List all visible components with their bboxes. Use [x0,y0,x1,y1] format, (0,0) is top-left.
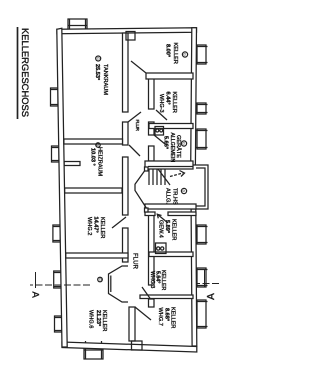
svg-text:25.53°: 25.53° [94,64,100,80]
svg-text:HEIZRAUM: HEIZRAUM [97,147,103,177]
svg-text:5.66°: 5.66° [163,136,169,149]
svg-text:6.44°: 6.44° [165,92,171,105]
svg-text:GEW.4: GEW.4 [158,220,164,238]
svg-text:FLUR: FLUR [134,120,140,132]
svg-text:5.89°: 5.89° [164,220,170,233]
svg-text:WHG.6: WHG.6 [88,310,94,328]
svg-text:KELLER: KELLER [99,217,105,238]
svg-text:WHG.2: WHG.2 [86,217,92,235]
svg-text:A: A [31,292,42,299]
svg-text:14.47°: 14.47° [93,217,99,233]
svg-text:KELLER: KELLER [171,92,177,113]
svg-text:TANKRAUM: TANKRAUM [102,64,108,95]
svg-text:8.00°: 8.00° [165,44,171,57]
svg-text:21.23°: 21.23° [95,310,101,326]
svg-text:TR.HS: TR.HS [172,188,178,205]
svg-text:WHG-3: WHG-3 [158,94,164,113]
svg-text:ALLG.: ALLG. [165,188,171,204]
svg-text:WHG.3: WHG.3 [149,271,155,288]
svg-text:KELLER: KELLER [171,219,177,240]
svg-text:KELLER: KELLER [172,43,178,64]
svg-text:G: G [182,142,186,145]
svg-text:8.68°: 8.68° [164,308,170,321]
svg-text:A: A [206,293,217,300]
svg-text:G: G [98,278,102,281]
svg-text:FLUR: FLUR [132,253,138,270]
svg-text:G: G [183,53,187,56]
svg-text:ALLGEMEIN: ALLGEMEIN [169,133,175,163]
svg-text:G: G [182,190,186,193]
svg-text:G: G [96,57,100,60]
svg-text:10.03 °: 10.03 ° [90,148,96,166]
svg-text:GERÄTE: GERÄTE [175,135,182,158]
svg-text:WHG.7: WHG.7 [157,308,163,326]
svg-text:KELLERGESCHOSS: KELLERGESCHOSS [20,28,31,117]
